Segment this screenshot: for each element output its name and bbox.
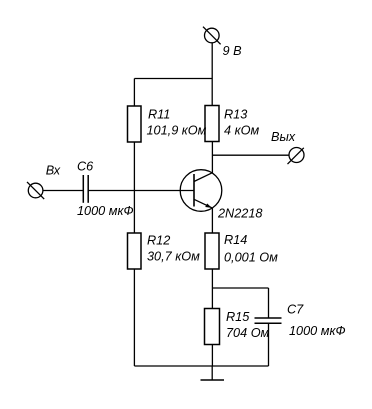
wire C7 branch down to top plate: [268, 288, 270, 318]
svg-text:0,001 Ом: 0,001 Ом: [224, 251, 278, 265]
resistor R15: [205, 309, 220, 345]
svg-text:4 кОм: 4 кОм: [224, 124, 259, 138]
svg-text:1000 мкФ: 1000 мкФ: [289, 324, 346, 338]
wire bottom ground rail: [134, 365, 268, 367]
wire R13 bottom to collector: [211, 142, 213, 173]
wire R14 bottom to R15 top: [211, 269, 213, 309]
emitter arrowhead: [205, 204, 212, 208]
svg-text:R11: R11: [148, 108, 170, 122]
svg-text:Вых: Вых: [271, 130, 296, 144]
resistor R11: [128, 106, 142, 142]
svg-text:R14: R14: [224, 233, 247, 247]
wire output node to Вых terminal: [212, 154, 289, 156]
svg-text:C6: C6: [77, 160, 94, 174]
svg-text:R12: R12: [147, 233, 170, 247]
wire C6 to transistor base: [88, 190, 194, 192]
svg-text:1000 мкФ: 1000 мкФ: [77, 204, 134, 218]
resistor R14: [205, 233, 219, 269]
wire top horizontal rail: [134, 78, 212, 80]
wire input terminal to C6: [43, 190, 83, 192]
resistor R13: [205, 106, 219, 142]
wire rail to R11 top: [133, 79, 135, 107]
svg-text:R13: R13: [224, 108, 247, 122]
wire emitter node to C7 branch: [212, 287, 268, 289]
capacitor C7: [255, 318, 282, 323]
terminal 9V supply: [203, 27, 221, 45]
capacitor C6: [83, 175, 88, 203]
wire R12 bottom to ground rail: [133, 269, 135, 366]
svg-text:9 В: 9 В: [223, 44, 243, 58]
wire base node to R12 top: [133, 191, 135, 234]
svg-text:101,9 кОм: 101,9 кОм: [147, 124, 207, 138]
wire R15 bottom to ground rail: [211, 345, 213, 367]
ground: [201, 366, 225, 380]
wire 9V terminal to R13 top: [211, 43, 213, 106]
transistor Q1 2N2218: [180, 170, 222, 212]
wire C7 bottom plate to ground rail: [268, 323, 270, 366]
wire emitter to R14 top: [211, 208, 213, 233]
svg-text:R15: R15: [226, 310, 250, 324]
terminal Вых output: [288, 148, 305, 165]
svg-text:2N2218: 2N2218: [217, 207, 262, 221]
terminal Вх input: [27, 182, 44, 199]
svg-text:704 Ом: 704 Ом: [226, 326, 270, 340]
svg-text:Вх: Вх: [46, 164, 61, 178]
svg-text:30,7 кОм: 30,7 кОм: [147, 250, 200, 264]
wire R11 bottom to base node: [133, 142, 135, 191]
resistor R12: [128, 233, 142, 269]
svg-text:C7: C7: [287, 303, 304, 317]
